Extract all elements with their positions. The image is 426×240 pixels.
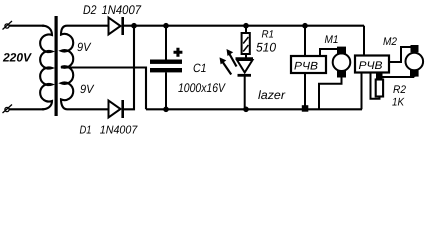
svg-text:9V: 9V xyxy=(80,82,94,96)
input terminal J2 (bottom) xyxy=(3,105,13,114)
svg-text:1000x16V: 1000x16V xyxy=(178,81,226,95)
motor M1 terminal xyxy=(337,47,346,55)
resistor R2 xyxy=(376,80,383,97)
wire (M2 return to R2 top) xyxy=(379,76,414,78)
motor M2 xyxy=(406,53,424,71)
wire (U2 output bracket to M2) xyxy=(389,47,411,62)
node (C1 top junction) xyxy=(163,23,169,29)
transformer T1 secondary winding (bottom half) xyxy=(61,66,108,109)
speed controller U1 riser wire xyxy=(304,26,306,56)
wire (top lead to primary) xyxy=(9,25,44,27)
svg-text:1K: 1K xyxy=(392,97,405,109)
speed controller block U2 (РЧВ) xyxy=(355,56,389,73)
svg-text:D2: D2 xyxy=(83,3,97,17)
LED emission arrow (lower) xyxy=(220,57,232,74)
node (LED bottom junction) xyxy=(243,107,249,113)
wire (bottom rail) xyxy=(146,108,362,110)
transformer T1 core xyxy=(55,16,58,116)
svg-text:РЧВ: РЧВ xyxy=(359,60,383,72)
svg-text:M2: M2 xyxy=(383,36,397,48)
svg-text:РЧВ: РЧВ xyxy=(294,61,318,73)
svg-text:1N4007: 1N4007 xyxy=(102,3,142,17)
node (C1 bottom junction) xyxy=(163,107,169,113)
wire (top + rail) xyxy=(124,25,365,27)
transformer T1 primary winding xyxy=(40,26,52,110)
svg-text:9V: 9V xyxy=(77,40,91,54)
node (D1 riser junction) xyxy=(131,23,137,29)
wire (rail corner into U2) xyxy=(363,26,365,56)
node (U1 bottom junction) xyxy=(302,105,309,112)
speed controller block U1 (РЧВ) xyxy=(291,56,326,73)
wire (bottom lead to primary) xyxy=(9,108,44,110)
transformer T1 secondary winding (top half) xyxy=(61,26,108,68)
LED D3 (laser diode) xyxy=(236,59,254,110)
diode D1 xyxy=(109,100,123,118)
resistor R1 xyxy=(242,26,250,58)
svg-text:D1: D1 xyxy=(80,124,92,136)
wire (D1 cathode riser to + rail) xyxy=(124,26,135,110)
capacitor C1 xyxy=(150,26,182,110)
svg-text:C1: C1 xyxy=(193,61,207,75)
wire (M1 return to ground rail) xyxy=(319,77,342,109)
svg-text:lazer: lazer xyxy=(258,88,286,102)
node (U1 top junction) xyxy=(302,23,308,29)
label + (C1 polarity) xyxy=(174,48,183,57)
svg-text:510: 510 xyxy=(256,41,276,55)
svg-text:220V: 220V xyxy=(2,51,32,65)
diode D2 xyxy=(109,17,123,35)
wire (U1 output bracket to M1) xyxy=(320,49,337,56)
wire (center tap) xyxy=(61,68,146,110)
node (R1 top junction) xyxy=(243,23,249,29)
node (R2 top / M2 return junction) xyxy=(376,74,383,80)
wire (U2 feedback pin to R2 bottom) xyxy=(371,73,380,99)
svg-text:M1: M1 xyxy=(325,34,339,46)
motor M2 brush xyxy=(410,70,419,77)
svg-text:R1: R1 xyxy=(262,29,275,41)
wire (U2 ground pin / rail end) xyxy=(361,73,363,110)
svg-text:R2: R2 xyxy=(393,84,406,96)
wire (U1 ground pin) xyxy=(304,73,306,109)
motor M2 terminal xyxy=(411,45,419,52)
input terminal J1 (top) xyxy=(3,21,13,30)
svg-text:1N4007: 1N4007 xyxy=(100,124,138,136)
motor M1 brush xyxy=(337,70,346,77)
motor M1 xyxy=(333,53,351,71)
LED emission arrow (upper) xyxy=(227,49,237,67)
